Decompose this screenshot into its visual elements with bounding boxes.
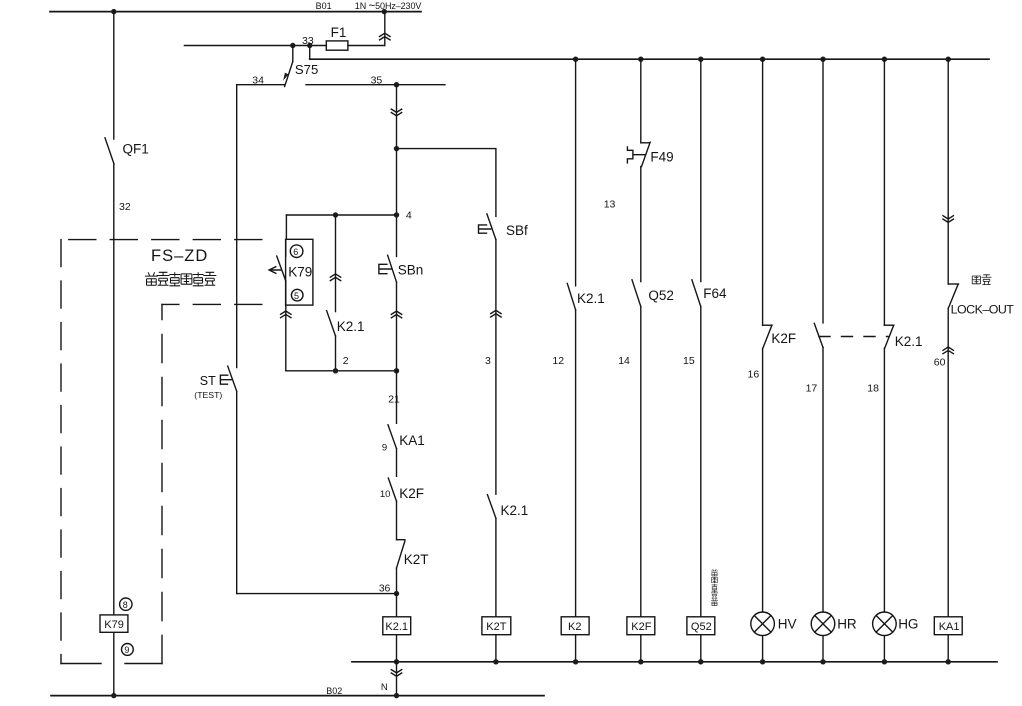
svg-text:16: 16 [748,369,760,381]
wire column 16 upper [762,59,764,325]
wire SBf column to K2T coil [495,518,497,617]
wire column 12 lower [575,310,577,617]
svg-text:HG: HG [898,616,918,631]
wire node 2 horizontal [286,370,397,372]
svg-text:S75: S75 [295,62,318,77]
wire SBf column middle [495,240,497,495]
svg-text:9: 9 [124,645,129,655]
break chevron above node 2 on main column [391,311,401,318]
svg-text:FS–ZD: FS–ZD [151,247,208,265]
coil K2T box [482,617,511,635]
contact F49 blade [642,142,651,166]
wire K2T coil to bus D [495,635,497,662]
wire node 34 horizontal [237,84,285,86]
relay K79 fixed contact stub [285,239,287,256]
wire column 15 lower [700,307,702,617]
node bus C at column 13 [638,57,643,62]
wire through fuse F1 to riser [348,45,385,47]
switch S75 arrowhead [283,73,288,81]
svg-text:B01: B01 [316,1,332,11]
svg-text:K2T: K2T [486,621,506,633]
svg-text:32: 32 [119,201,131,213]
node 2 junction [333,368,338,373]
svg-text:60: 60 [934,357,946,369]
svg-text:K79: K79 [288,265,312,280]
wire column 13-14 middle [640,167,642,282]
lamp HV [751,612,775,636]
wire column 16 lower [762,348,764,612]
contact KA1 blade [388,425,397,449]
node B02 at K79 coil branch [111,693,116,698]
pushbutton SBf actuator E [479,225,491,233]
contact LOCK-OUT bar [948,283,958,285]
svg-text:K2F: K2F [771,331,796,346]
coil Q52 box [687,617,715,635]
svg-text:B02: B02 [326,686,342,696]
wire main column below SBn [396,282,398,423]
terminal circle 9 [122,644,134,656]
svg-text:17: 17 [806,383,818,395]
node bus D at KA1 coil [946,659,951,664]
node 4 junction on main column [394,212,399,217]
contact F49 thermal actuator [627,147,645,163]
svg-text:F64: F64 [703,286,727,301]
node bus D at K2 coil [573,659,578,664]
svg-text:Q52: Q52 [691,621,712,633]
wire K2.1 parallel branch lower [335,336,337,371]
wire K2.1 parallel branch upper [335,215,337,312]
break chevron on K79 contact branch [281,311,291,318]
svg-text:F1: F1 [331,25,347,40]
coil K79 box [100,615,128,632]
wire branch to SBf [397,149,496,217]
wire K2F coil to bus D [640,635,642,662]
svg-text:8: 8 [123,600,128,610]
terminal circle 8 [120,598,132,610]
wire column 18 upper [883,59,885,325]
terminal circle 5 [291,289,303,301]
node bus C at column 12 [573,57,578,62]
coil K2.1 box [383,617,411,635]
svg-text:33: 33 [302,35,314,47]
relay K79 contact blade [277,256,286,281]
wire main column to node 36 [396,568,398,617]
node junction on B01 at QF1 branch [111,9,116,14]
node bus C at column 18 [882,57,887,62]
wire column 60 upper [947,59,949,284]
svg-text:13: 13 [604,199,616,211]
node bus D at lamp HV [760,659,765,664]
svg-text:(TEST): (TEST) [194,390,222,400]
pushbutton ST blade [228,366,237,391]
wire node 35 horizontal [306,84,445,86]
svg-text:K2.1: K2.1 [337,319,365,334]
svg-text:10: 10 [380,489,391,500]
contact K2.1 blade column 12 [567,283,575,310]
node junction on node-4 line at K2.1 branch [333,212,338,217]
node junction main column to SBf branch [394,146,399,151]
svg-text:F49: F49 [650,149,673,164]
contact K2.1 blade column 18 [885,325,894,348]
wire riser from F1 to B01 [384,12,386,46]
wire node 36 horizontal from test branch [237,593,397,595]
wire QF1 branch upper [113,12,115,139]
node bus C at column 16 [760,57,765,62]
mechanical link dashes 17-18 [819,336,888,338]
svg-text:1N ~50Hz–230V: 1N ~50Hz–230V [355,1,422,13]
wire lamp HV to bus D [762,636,764,662]
contact LOCK-OUT blade [948,284,958,308]
svg-text:6: 6 [293,247,298,257]
svg-text:SBf: SBf [506,223,528,238]
svg-text:HR: HR [837,616,857,631]
node B02 at N drop [394,693,399,698]
node bus D at K2T coil [493,659,498,664]
svg-text:36: 36 [379,582,391,594]
wire lamp HR to bus D [822,636,824,662]
label restart relay Chinese text [145,272,216,286]
node junction on B01 at F1 riser [382,9,387,14]
wire node 4 horizontal [286,214,396,216]
wire bus C drop from node 33b [309,46,311,60]
switch S75 blade [285,62,293,87]
break chevron down on column 60 [943,216,953,223]
relay K79 manual arrow [269,267,281,274]
wire B01 top bus [50,11,421,13]
svg-text:HV: HV [778,616,797,631]
contact blade column 17 [814,323,823,347]
svg-text:K2.1: K2.1 [385,621,408,633]
contact K2T bar [397,539,405,541]
break chevron up on column 60 [943,347,953,354]
dashed FS-ZD boundary top edge [61,239,262,241]
svg-text:N: N [381,682,388,693]
break chevron on F1 riser [380,33,390,40]
pushbutton SBf blade [487,214,496,240]
node bus D at K2F coil [638,659,643,664]
lamp HG [873,612,897,636]
svg-text:K2T: K2T [404,552,429,567]
svg-text:3: 3 [485,355,491,367]
svg-text:4: 4 [406,210,412,222]
wire test branch upper [236,85,238,368]
fuse F1 body [326,41,348,50]
wire column 17 lower [822,348,824,613]
wire main column upper segment [396,85,398,257]
wire test branch lower [236,391,238,593]
svg-text:K2F: K2F [399,486,424,501]
contact K2F bar column 16 [763,324,772,326]
svg-text:K2.1: K2.1 [577,291,605,306]
svg-text:K79: K79 [104,619,124,631]
label shunt trip Chinese vertical text [711,569,718,606]
terminal circle 6 [290,245,303,258]
contact K2.1 blade on SBf column [487,495,496,519]
dashed FS-ZD boundary left edge [60,240,62,664]
svg-text:18: 18 [867,383,879,395]
svg-text:K2F: K2F [631,621,651,633]
coil K2F box [627,617,655,635]
wire between K2F and K2T contacts [396,501,398,540]
wire column 14 lower [640,307,642,617]
svg-text:KA1: KA1 [399,433,425,448]
wire column 17 upper [822,59,824,323]
contact K2.1 bar column 18 [884,324,893,326]
dashed FS-ZD boundary bottom edge [61,663,162,665]
switch S75 stub [292,46,294,62]
svg-text:35: 35 [371,75,383,87]
svg-text:Q52: Q52 [648,288,674,303]
node junction 35 at main column [394,82,399,87]
breaker QF1 blade [105,138,114,164]
dashed FS-ZD boundary inner right edge [161,304,163,663]
svg-text:SBn: SBn [398,262,424,277]
svg-text:K2: K2 [568,621,581,633]
contact K2T blade [397,541,405,568]
wire bus C horizontal [310,58,989,60]
wire column 15 upper [700,59,702,281]
wire K79 contact branch drop [285,215,287,239]
svg-text:2: 2 [343,355,349,367]
wire column 18 lower [883,348,885,612]
node 33b junction [307,43,312,48]
node bus C at column 17 [820,57,825,62]
wire column 12 upper [575,59,577,286]
svg-text:9: 9 [382,443,387,454]
svg-text:14: 14 [618,355,630,367]
wire Q52 coil to bus D [700,635,702,662]
svg-text:34: 34 [252,75,264,87]
lamp HR [811,612,835,636]
svg-text:K2.1: K2.1 [501,503,529,518]
node bus D at Q52 coil [698,659,703,664]
pushbutton SBn actuator E [379,264,391,273]
svg-text:5: 5 [294,291,299,301]
wire KA1 coil to bus D [947,635,949,662]
wire 33 line [184,45,326,47]
coil K2 box [561,617,589,635]
contact K2.1 blade (seal-in) [327,311,336,336]
label lock Chinese text [972,275,991,285]
wire B02 bottom line [51,695,544,697]
pushbutton SBn blade [388,255,397,282]
svg-text:21: 21 [388,394,400,406]
node bus C at column 60 [946,57,951,62]
svg-text:15: 15 [683,355,695,367]
node 21 junction [394,368,399,373]
coil KA1 box [934,617,962,635]
wire K2.1 coil to bus D [396,635,398,662]
wire below K79 contact [285,281,287,371]
contact Q52 blade [632,280,641,307]
svg-text:QF1: QF1 [123,142,149,157]
node bus D at lamp HR [820,659,825,664]
wire between KA1 and K2F contacts [396,449,398,477]
svg-text:KA1: KA1 [939,621,960,633]
wire N drop to B02 [396,662,398,696]
wire K2 coil to bus D [575,635,577,662]
svg-text:ST: ST [200,374,216,388]
contact K2F blade column 16 [763,325,772,348]
wire QF1 branch lower to K79 coil and B02 [113,164,115,696]
contact F49 bar [641,142,650,144]
node 36 junction [394,591,399,596]
node bus C at column 15 [698,57,703,62]
node 33a junction [290,43,295,48]
svg-text:LOCK–OUT: LOCK–OUT [951,302,1015,316]
node bus D at lamp HG [882,659,887,664]
node bus D at K2.1 coil [394,659,399,664]
break chevron on K2.1 parallel branch [330,274,340,281]
wire column 60 lower [947,308,949,617]
bus D bottom horizontal [352,661,997,663]
break chevron on SBf column [491,310,501,317]
pushbutton ST actuator E [220,375,232,384]
dashed FS-ZD boundary inner horizontal edge [162,303,262,305]
wire lamp HG to bus D [883,636,885,662]
break chevron down on main column [391,109,401,116]
relay K79 contact box [286,239,313,305]
wire column 13 upper [640,59,642,143]
svg-text:12: 12 [552,355,564,367]
contact F64 blade [692,280,701,307]
svg-text:K2.1: K2.1 [895,334,923,349]
break chevron down on N drop [391,670,401,677]
contact K2F blade [388,478,396,501]
